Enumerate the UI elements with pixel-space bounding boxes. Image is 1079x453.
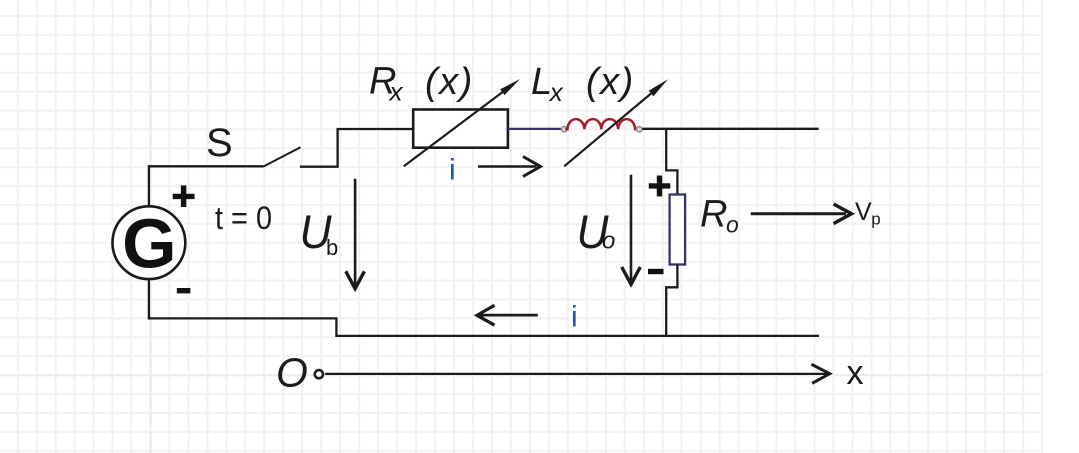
svg-text:b: b <box>326 235 338 260</box>
svg-text:i: i <box>449 154 456 187</box>
wire junction down to resistor Ro <box>666 129 677 195</box>
wire resistor Rx to inductor (navy) <box>508 128 561 130</box>
wire inductor to top right <box>642 128 818 130</box>
wire from generator top to switch <box>149 166 263 207</box>
wire generator bottom rail <box>149 280 819 336</box>
switch S blade <box>263 147 301 167</box>
label Uo <box>577 205 616 258</box>
svg-text:i: i <box>571 301 578 334</box>
svg-text:S: S <box>206 121 233 165</box>
svg-text:x: x <box>847 354 864 392</box>
svg-text:(x): (x) <box>586 61 635 103</box>
label Rx (x) <box>369 61 474 107</box>
generator + terminal <box>173 185 195 207</box>
Ro + polarity <box>649 176 671 197</box>
resistor Rx <box>413 110 508 148</box>
label Lx (x) <box>531 61 635 107</box>
variable arrow through Rx <box>404 79 520 166</box>
wire Ro bottom to bottom rail <box>666 265 677 336</box>
svg-text:x: x <box>548 77 564 107</box>
current arrow i (top) <box>478 157 541 177</box>
Ro - polarity <box>648 269 664 274</box>
generator G <box>112 205 185 283</box>
svg-text:t = 0: t = 0 <box>215 200 272 236</box>
wire from switch to resistor Rx <box>300 129 413 167</box>
resistor Ro <box>670 195 686 265</box>
svg-text:o: o <box>726 212 739 238</box>
svg-text:(x): (x) <box>425 61 474 103</box>
voltage arrow Ub <box>346 179 365 289</box>
svg-text:R: R <box>700 194 727 236</box>
svg-text:o: o <box>602 228 615 255</box>
generator - terminal <box>177 288 191 293</box>
axis arrow x <box>325 364 830 383</box>
svg-text:p: p <box>871 209 880 228</box>
inductor Lx coil <box>565 119 637 129</box>
arrow to Vp <box>751 204 852 224</box>
current arrow i (bottom, pointing left) <box>477 305 538 325</box>
label Ub <box>300 205 339 260</box>
svg-text:V: V <box>855 198 872 226</box>
node dot right of inductor <box>637 127 642 132</box>
axis origin circle <box>315 370 323 378</box>
node dot left of inductor <box>562 127 567 132</box>
svg-text:G: G <box>122 205 176 283</box>
voltage arrow Uo <box>622 175 641 284</box>
label Ro <box>700 194 739 238</box>
variable arrow through Lx <box>564 79 668 166</box>
svg-text:O: O <box>276 349 308 395</box>
label Vp <box>855 198 881 229</box>
svg-text:x: x <box>388 77 404 107</box>
